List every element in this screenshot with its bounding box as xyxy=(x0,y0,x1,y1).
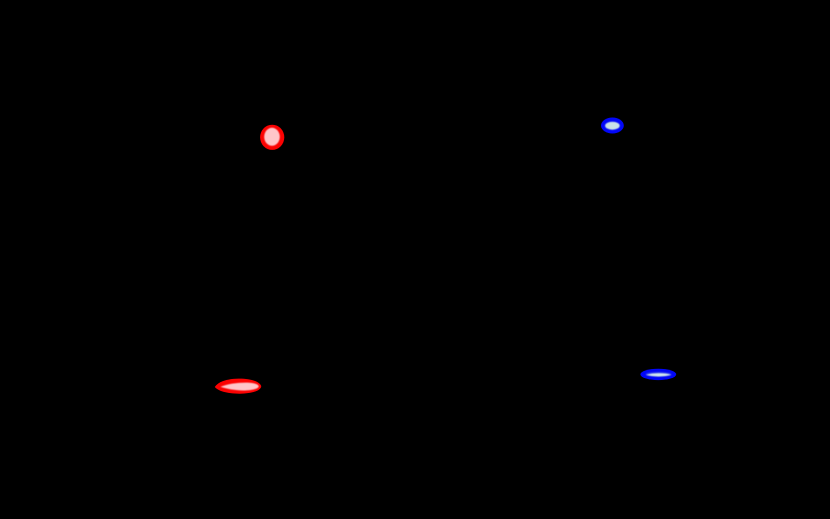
blue drop (flattened, lower right) xyxy=(640,369,676,380)
red drop (round, upper left) xyxy=(260,125,284,150)
red drop (flattened, lower left) xyxy=(215,379,261,394)
blue drop (round, upper right) xyxy=(601,118,624,134)
